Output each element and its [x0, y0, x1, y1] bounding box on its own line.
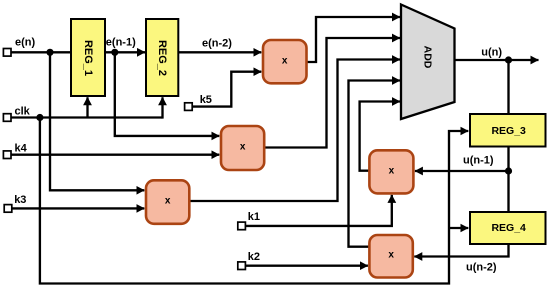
- wire u(n-1) into mult M4 right: [415, 170, 509, 172]
- wire e(n-1) vertical down then into mult M2 input 1: [115, 52, 220, 136]
- port k5: [185, 103, 193, 111]
- svg-text:REG_3: REG_3: [491, 125, 526, 137]
- svg-text:REG_4: REG_4: [491, 222, 526, 234]
- wire REG_2 to mult M1 input 1 (e(n-2)): [178, 51, 261, 53]
- port k3: [4, 205, 12, 213]
- wire k3 to mult M3 input 2: [11, 207, 144, 209]
- svg-text:k2: k2: [248, 251, 260, 263]
- node e(n-1) junction: [111, 49, 118, 56]
- wire M4 output to ADD input 5: [360, 102, 400, 171]
- port k1: [238, 222, 246, 230]
- svg-text:x: x: [165, 196, 171, 207]
- wire k1 right, up into mult M4 bottom: [246, 195, 392, 226]
- port e(n): [3, 49, 11, 57]
- svg-text:e(n-1): e(n-1): [106, 36, 136, 48]
- wire e(n) vertical down then into mult M3 input 1: [50, 52, 144, 190]
- multiplier M2 (e(n-1) x k4): [221, 126, 264, 170]
- wire M1 output to ADD input 1: [307, 17, 401, 62]
- adder ADD trapezoid: [401, 5, 455, 120]
- wire u(n) drop into REG_3 top: [507, 60, 509, 114]
- wire REG_3 bottom to u(n-1) node and REG_4 top: [507, 147, 509, 213]
- port k2: [238, 262, 246, 270]
- wire clk horizontal: [10, 116, 163, 118]
- port clk: [3, 114, 11, 122]
- wire k5 right, up, into mult M1 input 2: [192, 72, 261, 107]
- svg-text:k4: k4: [15, 143, 28, 155]
- node clk junction: [36, 114, 43, 121]
- register REG_4: [470, 212, 546, 244]
- svg-text:clk: clk: [15, 106, 31, 118]
- svg-text:u(n-1): u(n-1): [463, 154, 494, 166]
- wire M3 output to ADD input 3: [189, 60, 400, 202]
- wire u(n) output: [455, 59, 539, 61]
- wire k4 to mult M2 input 2: [10, 154, 219, 156]
- wire e(n) port to REG_1: [10, 51, 71, 53]
- svg-text:k5: k5: [200, 94, 212, 106]
- svg-text:k3: k3: [14, 194, 26, 206]
- wire M2 output to ADD input 2: [264, 38, 400, 148]
- wire REG_1 to REG_2 (e(n-1)): [105, 51, 145, 53]
- register REG_3: [470, 114, 546, 147]
- register REG_2: [146, 19, 178, 96]
- wire k2 to mult M5 input 2: [246, 265, 368, 267]
- svg-text:e(n): e(n): [15, 37, 36, 49]
- wire M5 output to ADD input 4: [349, 81, 401, 247]
- wire clk corner up into REG_2 bottom: [161, 97, 163, 118]
- svg-text:x: x: [388, 250, 394, 261]
- svg-text:ADD: ADD: [422, 46, 434, 69]
- svg-text:k1: k1: [248, 211, 260, 223]
- node u(n) junction: [505, 56, 512, 63]
- register REG_1: [71, 19, 105, 96]
- multiplier M5 (u(n-2) x k2): [369, 235, 412, 278]
- node e(n) junction: [46, 49, 53, 56]
- node u(n-1) junction: [505, 167, 512, 174]
- wire clk branch into REG_4 left: [449, 227, 468, 229]
- port k4: [3, 151, 11, 159]
- wire clk branch up into REG_1 bottom: [86, 97, 88, 117]
- svg-text:REG_2: REG_2: [156, 40, 168, 76]
- svg-text:e(n-2): e(n-2): [202, 38, 232, 50]
- multiplier M3 (e(n) x k3): [146, 180, 189, 224]
- svg-text:u(n): u(n): [481, 47, 502, 59]
- svg-text:x: x: [282, 55, 288, 66]
- svg-text:u(n-2): u(n-2): [466, 262, 497, 274]
- svg-text:REG_1: REG_1: [82, 40, 94, 76]
- wire clk down-left, bottom run, up right side into REG_3 left: [40, 118, 468, 284]
- svg-text:x: x: [240, 142, 246, 153]
- svg-text:x: x: [389, 165, 395, 176]
- multiplier M4 (u(n-1) x k1): [369, 150, 413, 193]
- wire REG_4 bottom down, u(n-2) into mult M5 right: [414, 244, 508, 257]
- multiplier M1 (e(n-2) x k5): [263, 40, 307, 83]
